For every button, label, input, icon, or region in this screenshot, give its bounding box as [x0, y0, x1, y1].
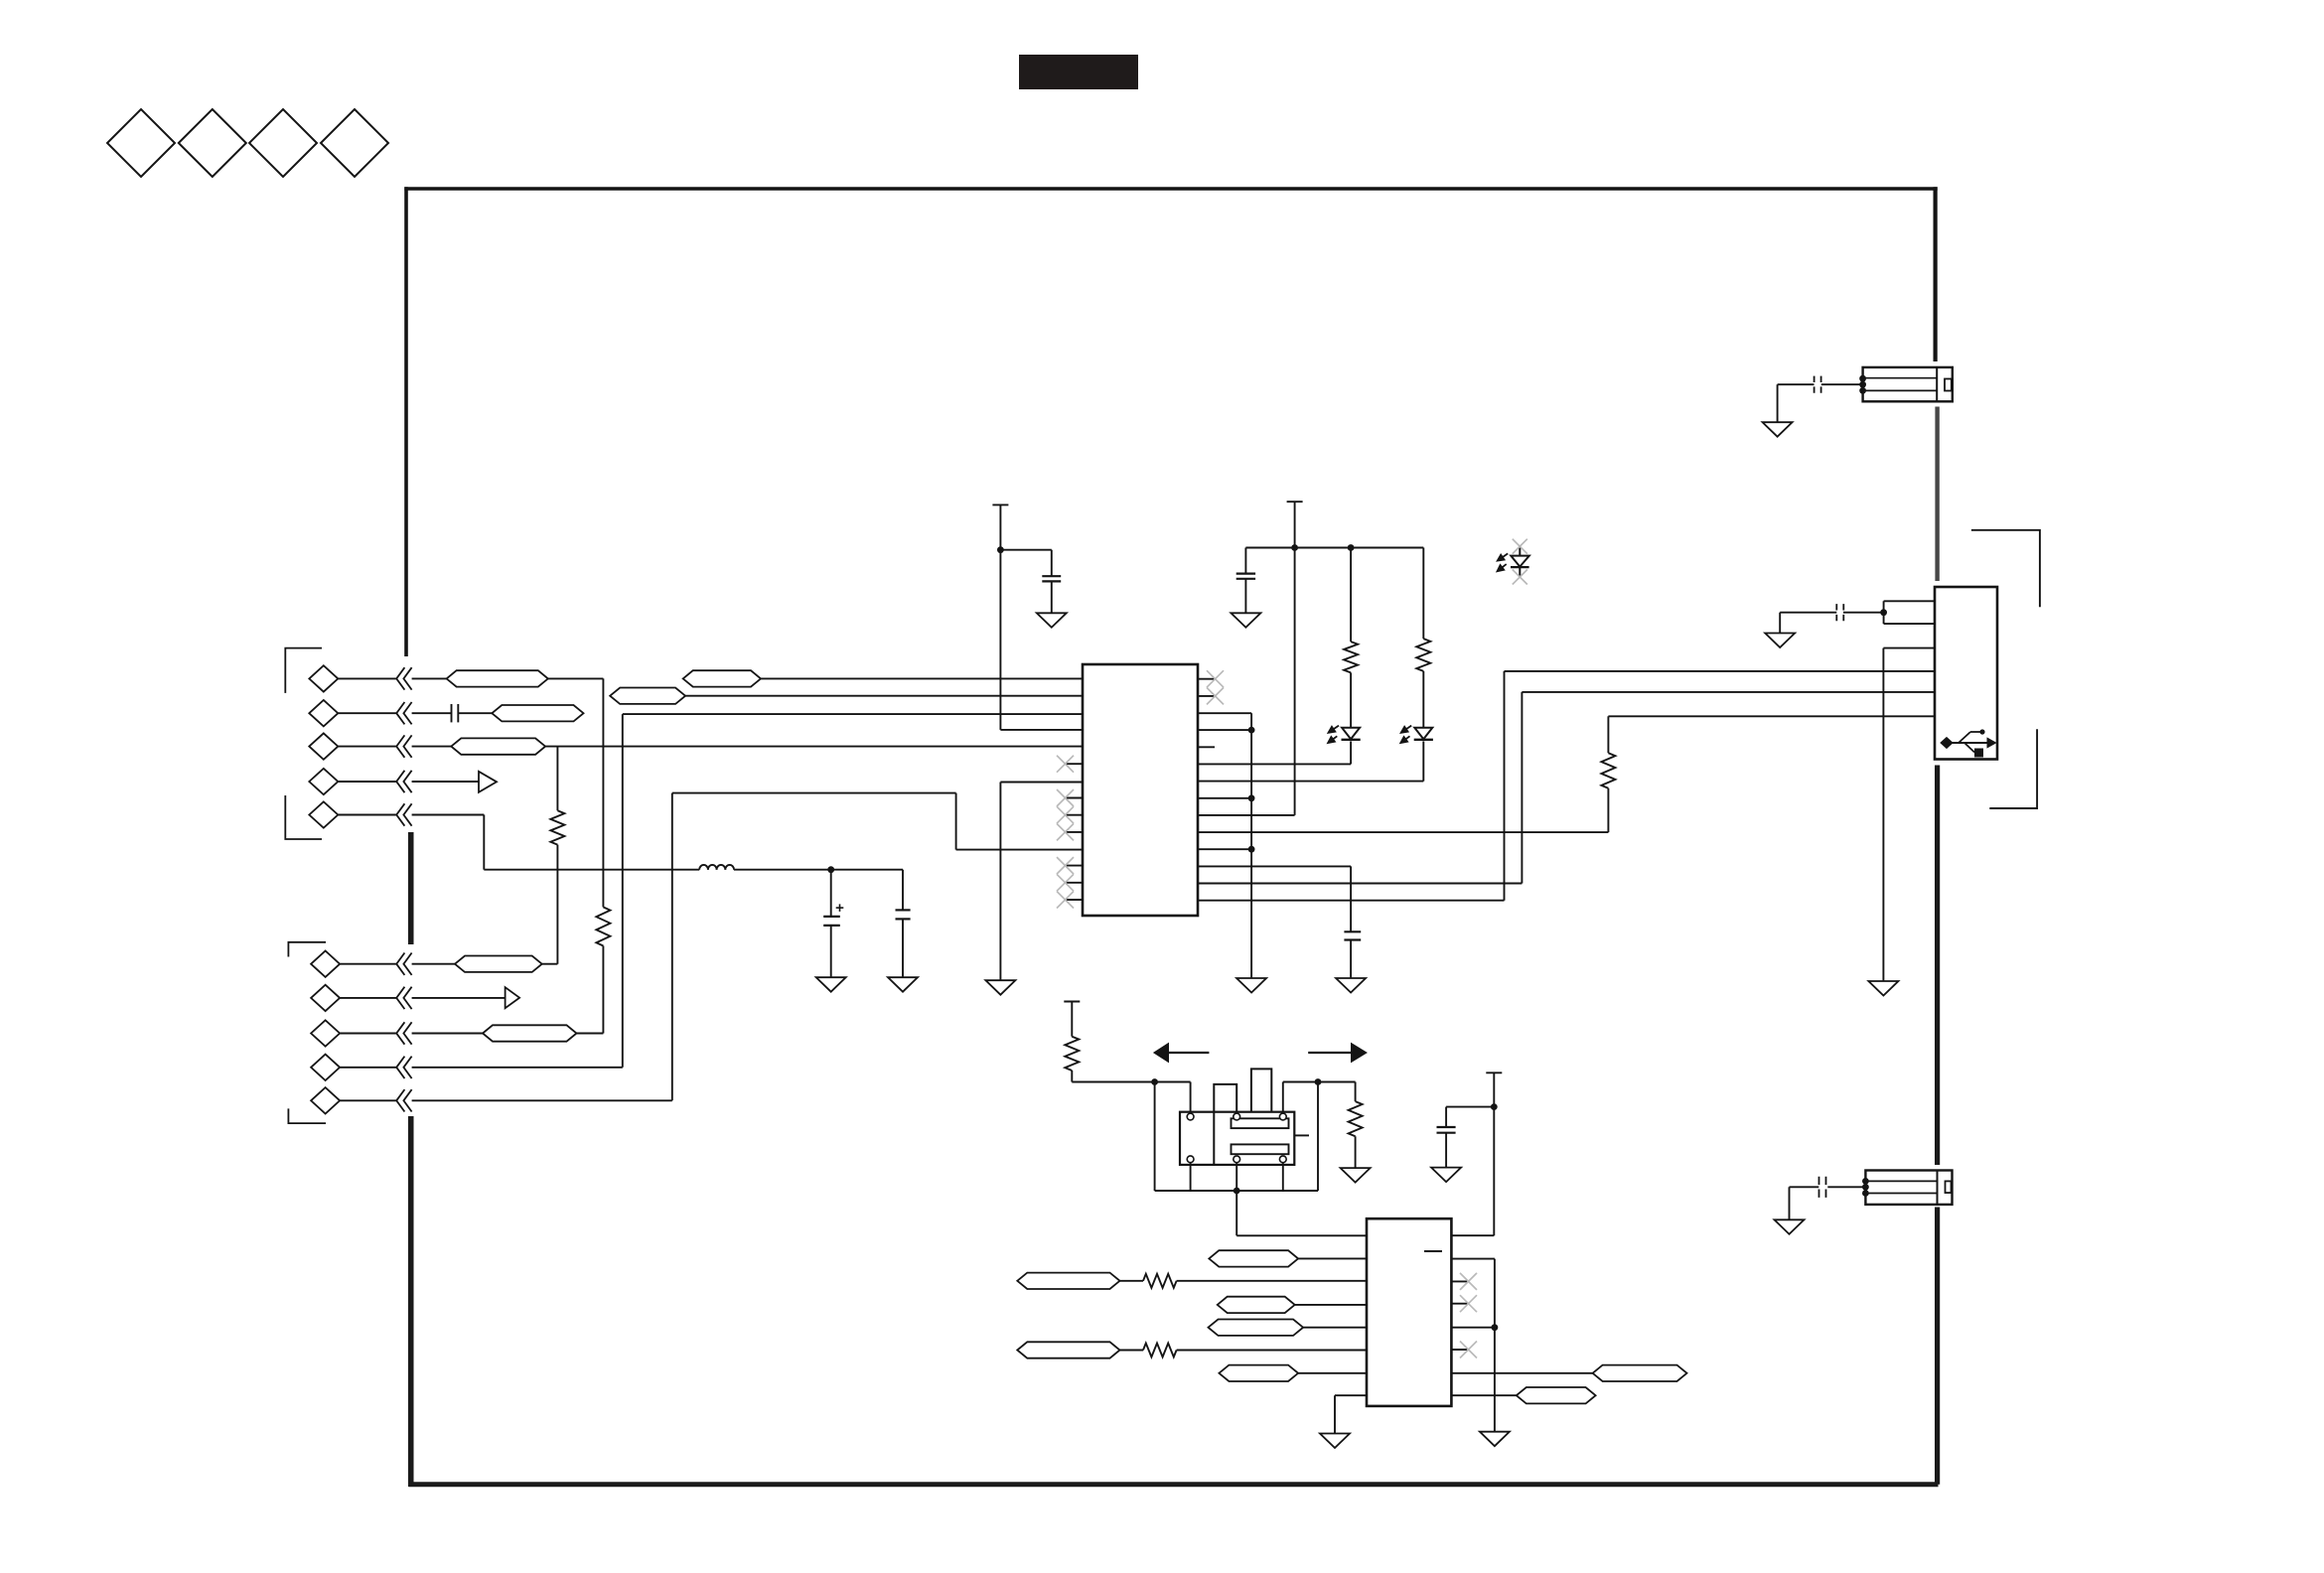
- board outline bottom border: [409, 1482, 1939, 1487]
- wire: [1298, 1372, 1367, 1374]
- wire: [340, 997, 396, 999]
- switch S1 pin circle top: [1279, 1113, 1286, 1120]
- wire: [1884, 600, 1935, 602]
- off-board chevron row 1: [396, 667, 411, 689]
- wire: [1282, 1162, 1284, 1191]
- wire: [1198, 865, 1351, 867]
- op-amp U2 control IC: [1367, 1218, 1451, 1406]
- wire: [1780, 612, 1836, 614]
- connector group1 pin diamond row 5: [309, 801, 338, 827]
- switch S1 pin circle bottom: [1279, 1156, 1286, 1163]
- no-connect pin U1 left: [1057, 892, 1083, 909]
- feedthrough capacitor C8: [1836, 604, 1843, 621]
- net label row1: [447, 670, 548, 686]
- off-board chevron row 5: [396, 803, 411, 825]
- connector group1 pin diamond row 2: [309, 700, 338, 726]
- wire: [1177, 1280, 1367, 1282]
- wire: [340, 1033, 396, 1035]
- connector group 2 bracket bottom: [288, 1108, 326, 1123]
- wire: [1451, 1234, 1494, 1236]
- wire: [1190, 1082, 1192, 1114]
- junction: [1492, 1324, 1499, 1331]
- wire: [1350, 741, 1352, 764]
- no-connect pin U1 right: [1198, 687, 1224, 704]
- resistor R9: [1143, 1344, 1177, 1358]
- wire: [340, 963, 396, 965]
- feedthrough capacitor C10: [1819, 1177, 1826, 1198]
- connector group1 pin diamond row 3: [309, 733, 338, 759]
- wire: [1303, 1327, 1367, 1329]
- U2 internal mark: [1424, 1250, 1442, 1252]
- connector group 1 bracket bottom: [285, 795, 322, 839]
- wire: [1451, 1258, 1495, 1260]
- mounting bracket lower right of USB: [1989, 729, 2037, 808]
- wire: [556, 845, 558, 964]
- junction: [1248, 794, 1255, 801]
- wire: [1198, 900, 1505, 902]
- LED D3 not fitted: [1497, 539, 1529, 585]
- capacitor C1 polarized: [823, 904, 843, 926]
- wire: [1295, 1304, 1367, 1306]
- wire: [1072, 1081, 1190, 1083]
- junction: [1348, 544, 1355, 551]
- wire: [1451, 1394, 1516, 1396]
- board outline right border bar below USB: [1935, 766, 1940, 1166]
- wire: [1051, 550, 1053, 577]
- net label U2 out1: [1593, 1365, 1687, 1381]
- switch S1 actuator: [1251, 1069, 1271, 1111]
- revision diamond 2: [179, 109, 246, 177]
- wire: [1422, 741, 1424, 781]
- net label U2 pin6: [1017, 1342, 1119, 1358]
- revision diamond 1: [107, 109, 175, 177]
- ground: [1775, 1219, 1805, 1234]
- wire: [542, 963, 558, 965]
- junction: [1880, 609, 1887, 616]
- wire: [412, 746, 452, 748]
- wire: [412, 963, 455, 965]
- net label row2: [492, 705, 583, 721]
- junction: [1862, 1178, 1869, 1197]
- connector X1 USB receptacle: [1935, 587, 1997, 760]
- wire: [338, 712, 396, 714]
- wire: [338, 814, 396, 816]
- wire: [999, 504, 1001, 730]
- wire: [1883, 601, 1885, 624]
- wire: [458, 712, 492, 714]
- wire: [1778, 383, 1815, 385]
- wire: [1451, 1372, 1592, 1374]
- wire: [340, 1099, 396, 1101]
- wire: [956, 849, 1083, 851]
- off-board chevron group2 row 1: [396, 953, 411, 975]
- wire: [1884, 623, 1935, 625]
- wire: [483, 815, 485, 870]
- wire: [1355, 1136, 1357, 1168]
- connector group1 pin diamond row 4: [309, 769, 338, 794]
- connector group2 pin diamond row 2: [311, 985, 340, 1011]
- off-board chevron row 2: [396, 702, 411, 724]
- no-connect pin U2 right: [1451, 1295, 1477, 1312]
- wire: [1451, 1327, 1495, 1329]
- net label group2 row3: [483, 1025, 577, 1041]
- wire: [338, 677, 396, 679]
- wire: [1198, 848, 1251, 850]
- connector X2 divider: [1936, 367, 1938, 401]
- buffer symbol group2 row2: [506, 987, 519, 1008]
- wire: [622, 714, 624, 1068]
- switch S1 contact bar 2: [1232, 1144, 1289, 1154]
- wire: [1522, 691, 1935, 693]
- wire: [1827, 1186, 1865, 1188]
- capacitor C7 series: [452, 704, 459, 722]
- net label U2 pin3: [1017, 1273, 1119, 1289]
- wire: [1882, 648, 1884, 981]
- op-amp U1 interface IC: [1083, 664, 1198, 916]
- USB trident icon: [1941, 729, 1996, 757]
- wire: [734, 869, 903, 871]
- connector X3 key tab: [1946, 1181, 1952, 1193]
- net label U1 pin1: [683, 670, 761, 686]
- board outline left border bar segment 2: [408, 832, 414, 944]
- no-connect pin U1 left: [1057, 756, 1083, 773]
- wire: [1071, 1071, 1073, 1082]
- mounting bracket upper right of USB: [1971, 530, 2040, 607]
- wire: [1607, 788, 1609, 832]
- wire: [1198, 831, 1608, 833]
- wire: [556, 747, 558, 811]
- ground: [888, 977, 918, 992]
- wire: [548, 677, 604, 679]
- direction arrow left: [1154, 1044, 1210, 1063]
- wire: [1883, 647, 1935, 649]
- resistor R3: [1601, 753, 1615, 788]
- board outline right border bar bottom segment: [1935, 1208, 1940, 1485]
- ground: [816, 977, 846, 992]
- wire: [1505, 670, 1936, 672]
- off-board chevron row 3: [396, 735, 411, 757]
- wire: [1607, 716, 1609, 753]
- wire: [1350, 866, 1352, 931]
- ground: [1336, 978, 1366, 993]
- resistor R5: [1416, 639, 1430, 671]
- power symbol VCC3: [1064, 1001, 1080, 1003]
- wire: [412, 814, 485, 816]
- wire: [1790, 1186, 1819, 1188]
- wire: [1298, 1257, 1367, 1259]
- wire: [1198, 712, 1251, 714]
- resistor R6: [1065, 1037, 1079, 1071]
- wire: [1071, 1002, 1073, 1037]
- wire: [412, 1099, 672, 1101]
- wire: [1177, 1350, 1367, 1352]
- net label U2 pin2: [1209, 1250, 1298, 1266]
- wire: [1317, 1082, 1319, 1192]
- ground: [1763, 422, 1793, 437]
- net label U2 pin5: [1209, 1320, 1304, 1336]
- wire: [412, 781, 479, 783]
- wire: [1350, 940, 1352, 979]
- wire: [1422, 671, 1424, 728]
- switch S1 pin circle bottom: [1187, 1156, 1194, 1163]
- power symbol VCC2: [1287, 500, 1303, 502]
- connector group2 pin diamond row 1: [311, 951, 340, 977]
- wire: [1198, 763, 1351, 765]
- wire: [1282, 1082, 1284, 1114]
- wire: [1521, 692, 1523, 884]
- wire: [1504, 671, 1506, 901]
- switch S1 contact bar 1: [1232, 1118, 1289, 1128]
- board outline left border upper segment: [404, 187, 408, 656]
- wire: [902, 919, 904, 977]
- ground: [1480, 1432, 1510, 1447]
- LED D1: [1327, 726, 1360, 744]
- wire: [1000, 782, 1083, 784]
- connector group1 pin diamond row 1: [309, 665, 338, 691]
- off-board chevron group2 row 2: [396, 987, 411, 1009]
- resistor R1: [550, 810, 564, 844]
- switch S1 pin circle bottom: [1234, 1156, 1240, 1163]
- wire: [1120, 1350, 1144, 1352]
- wire: [1350, 672, 1352, 727]
- wire: [830, 870, 832, 917]
- net label row3: [451, 738, 545, 754]
- no-connect pin U2 right: [1451, 1342, 1477, 1358]
- junction: [1315, 1078, 1322, 1085]
- net label U2 out2: [1517, 1387, 1596, 1403]
- black title block: [1019, 55, 1138, 89]
- switch S1 pin circle top: [1187, 1113, 1194, 1120]
- capacitor C2: [896, 910, 911, 919]
- wire: [1244, 579, 1246, 614]
- resistor R2: [596, 907, 610, 945]
- wire: [685, 695, 1083, 697]
- connector X2 inner contact bottom: [1863, 389, 1938, 391]
- no-connect pin U1 left: [1057, 806, 1083, 823]
- switch S1 body: [1180, 1112, 1294, 1165]
- wire: [1283, 1081, 1356, 1083]
- wire: [1294, 548, 1296, 815]
- off-board chevron row 4: [396, 771, 411, 792]
- switch S1 actuator half: [1214, 1084, 1236, 1165]
- wire: [1155, 1190, 1318, 1192]
- junction: [1491, 1103, 1498, 1110]
- ground: [1868, 981, 1898, 996]
- junction: [827, 866, 834, 873]
- ground: [1765, 634, 1795, 648]
- wire: [1154, 1082, 1156, 1192]
- ground: [985, 980, 1015, 995]
- power symbol VCC1: [992, 503, 1008, 505]
- board outline right border gray segment: [1935, 407, 1939, 582]
- net label U1 pin2: [610, 688, 685, 704]
- wire: [999, 783, 1001, 981]
- connector X2 key tab: [1945, 379, 1952, 391]
- wire: [1235, 1162, 1237, 1235]
- wire: [1446, 1106, 1494, 1108]
- connector X2 shield top: [1863, 367, 1953, 401]
- wire: [1236, 1234, 1367, 1236]
- capacitor C6: [1437, 1127, 1456, 1133]
- connector X3 divider: [1937, 1171, 1939, 1205]
- switch S1 pin circle top: [1234, 1113, 1240, 1120]
- wire: [1198, 797, 1251, 799]
- wire: [1051, 581, 1053, 613]
- no-connect pin U2 right: [1451, 1273, 1477, 1290]
- capacitor C3: [1042, 576, 1061, 581]
- buffer symbol row4: [479, 772, 497, 792]
- wire: [412, 1033, 483, 1035]
- ground: [1341, 1168, 1371, 1183]
- junction: [997, 546, 1004, 553]
- resistor R8: [1143, 1274, 1177, 1288]
- wire: [1779, 613, 1781, 634]
- connector group 1 bracket top: [285, 648, 322, 693]
- wire: [830, 926, 832, 977]
- wire: [955, 793, 957, 850]
- revision diamond 3: [249, 109, 317, 177]
- ground: [1231, 613, 1260, 628]
- wire: [1789, 1187, 1791, 1219]
- wire: [623, 713, 1083, 715]
- board outline top border: [404, 187, 1937, 191]
- wire: [1198, 814, 1295, 816]
- wire: [1334, 1395, 1336, 1433]
- wire: [672, 792, 956, 794]
- no-connect pin U1 left: [1057, 823, 1083, 840]
- wire: [1250, 730, 1252, 978]
- ground: [1236, 978, 1266, 993]
- wire: [338, 781, 396, 783]
- direction arrow right: [1308, 1044, 1367, 1063]
- junction: [1151, 1078, 1158, 1085]
- wire: [1000, 549, 1051, 551]
- wire: [412, 712, 452, 714]
- wire: [1777, 384, 1779, 422]
- resistor R4: [1344, 642, 1358, 672]
- connector group 2 bracket top: [288, 942, 326, 957]
- wire: [1493, 1072, 1495, 1235]
- connector X3 inner contact bottom: [1865, 1193, 1937, 1195]
- no-connect pin U1 left: [1057, 857, 1083, 874]
- wire: [1494, 1259, 1496, 1432]
- wire: [484, 869, 699, 871]
- off-board chevron group2 row 4: [396, 1057, 411, 1078]
- wire: [902, 870, 904, 911]
- wire: [1198, 883, 1522, 885]
- net label U2 pin4: [1218, 1297, 1295, 1313]
- junction: [1291, 544, 1298, 551]
- revision diamond 4: [321, 109, 388, 177]
- net label group2 row1: [455, 956, 542, 972]
- connector X3 shield bottom: [1865, 1171, 1952, 1205]
- capacitor C5: [1344, 931, 1361, 939]
- wire: [1245, 547, 1423, 549]
- wire: [1198, 729, 1251, 731]
- wire: [545, 746, 1083, 748]
- wire: [412, 1067, 623, 1069]
- connector X3 inner contact top: [1865, 1180, 1937, 1182]
- wire: [340, 1067, 396, 1069]
- wire: [338, 746, 396, 748]
- wire: [1190, 1162, 1192, 1191]
- board outline right border upper segment: [1933, 187, 1937, 361]
- switch S1 nc stub: [1294, 1134, 1309, 1136]
- no-connect pin U1 left: [1057, 789, 1083, 806]
- connector group2 pin diamond row 4: [311, 1055, 340, 1080]
- wire: [1244, 548, 1246, 574]
- wire: [602, 678, 604, 907]
- wire: [671, 793, 673, 1101]
- wire: [1350, 548, 1352, 643]
- inductor L1: [699, 865, 734, 870]
- off-board chevron group2 row 5: [396, 1089, 411, 1111]
- wire: [1198, 781, 1423, 783]
- junction: [1234, 1188, 1240, 1195]
- connector group2 pin diamond row 3: [311, 1020, 340, 1046]
- no-connect pin U1 right: [1198, 670, 1224, 687]
- wire: [1000, 729, 1083, 731]
- resistor R7: [1349, 1101, 1363, 1136]
- wire: [1422, 548, 1424, 640]
- LED D2: [1400, 726, 1433, 744]
- wire: [1355, 1082, 1357, 1102]
- ground: [1320, 1434, 1350, 1449]
- connector X2 inner contact top: [1863, 377, 1938, 379]
- wire: [1445, 1133, 1447, 1168]
- wire: [412, 677, 447, 679]
- junction: [1248, 727, 1255, 734]
- wire: [1821, 383, 1863, 385]
- wire: [1843, 612, 1884, 614]
- wire: [1120, 1280, 1144, 1282]
- net label U2 pin7: [1219, 1365, 1298, 1381]
- off-board chevron group2 row 3: [396, 1022, 411, 1044]
- connector group2 pin diamond row 5: [311, 1087, 340, 1113]
- power symbol VCC4: [1486, 1072, 1502, 1073]
- no-connect pin U1 left: [1057, 874, 1083, 891]
- wire: [1608, 715, 1935, 717]
- wire: [412, 997, 506, 999]
- wire: [1250, 713, 1252, 730]
- wire: [1294, 501, 1296, 547]
- wire: [602, 946, 604, 1034]
- wire: [761, 677, 1083, 679]
- wire: [1335, 1394, 1367, 1396]
- junction: [1859, 375, 1866, 394]
- board outline left border bar segment 3: [408, 1116, 414, 1487]
- ground: [1037, 613, 1067, 628]
- capacitor C4: [1236, 574, 1255, 579]
- wire: [1445, 1107, 1447, 1127]
- feedthrough capacitor C9: [1815, 376, 1821, 393]
- unconnected stub U1: [1198, 746, 1215, 748]
- wire: [577, 1033, 604, 1035]
- junction: [1248, 846, 1255, 853]
- ground: [1431, 1168, 1461, 1183]
